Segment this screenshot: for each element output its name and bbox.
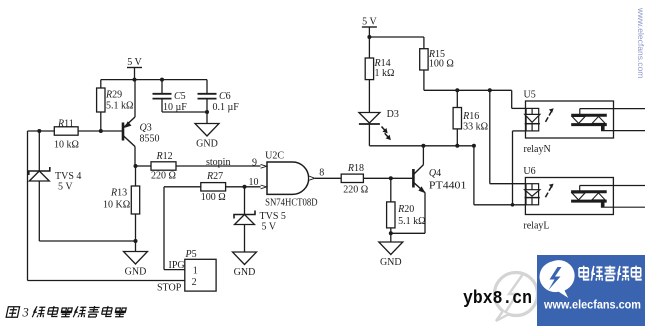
svg-text:GND: GND (196, 139, 218, 150)
wire STOP net (28, 280, 185, 282)
resistor R12 (151, 162, 176, 170)
wire to GND R13 (135, 241, 137, 252)
node U6 bottom branch (472, 144, 476, 148)
svg-text:GND: GND (380, 257, 402, 268)
svg-text:10 kΩ: 10 kΩ (54, 140, 79, 151)
svg-text:www.elecfans.com: www.elecfans.com (636, 7, 645, 78)
U6 internal LED (526, 184, 539, 205)
elecfans blue box Chinese brand text (579, 266, 589, 280)
wire U5 bottom pin (513, 130, 526, 132)
svg-text:5 V: 5 V (362, 17, 377, 28)
wire net B rail (369, 145, 474, 147)
wire C6 top lead (206, 80, 208, 94)
svg-text:R13: R13 (110, 188, 127, 199)
node R13 bottom junction (134, 239, 138, 243)
wire Q3 collector down (134, 147, 136, 167)
node 5V rail junction (133, 78, 137, 82)
svg-text:1 kΩ: 1 kΩ (375, 68, 395, 79)
svg-text:5 V: 5 V (262, 222, 277, 233)
svg-text:8: 8 (319, 168, 324, 179)
wire R29 bottom lead (100, 112, 102, 131)
watermark gray bubble logo (495, 273, 538, 322)
wire U6 top pin (490, 183, 526, 185)
resistor R16 (453, 108, 461, 129)
U5 triac (571, 114, 607, 117)
svg-text:P5: P5 (185, 249, 197, 260)
wire R11 to Q3 base (78, 130, 122, 132)
U6 flash arrow (545, 193, 548, 198)
node U5-U6 bottom junction (511, 203, 515, 207)
svg-text:5.1 kΩ: 5.1 kΩ (398, 216, 425, 227)
wire R15 bottom lead (423, 70, 425, 90)
wire R20 bottom lead (390, 228, 392, 233)
node R16 top junction (455, 88, 459, 92)
svg-text:www.elecfans.com: www.elecfans.com (543, 300, 641, 312)
wire TVS5 top lead (244, 187, 246, 215)
svg-text:5.1 kΩ: 5.1 kΩ (106, 101, 133, 112)
svg-text:U2C: U2C (265, 151, 284, 162)
svg-text:PT4401: PT4401 (429, 181, 467, 192)
svg-text:R27: R27 (206, 171, 223, 182)
wire C5 top lead (161, 80, 163, 94)
node R20 foot junction (389, 231, 393, 235)
resistor R18 (341, 174, 363, 182)
wire R18 to Q4 base (363, 177, 412, 179)
wire gate output (315, 177, 341, 179)
wire Q4 emitter down (424, 193, 426, 234)
wire R27 to pin10 (226, 186, 265, 188)
svg-text:R12: R12 (156, 151, 173, 162)
svg-text:C5: C5 (174, 91, 186, 102)
svg-text:9: 9 (252, 158, 257, 169)
wire C5 bottom lead (161, 99, 163, 112)
svg-text:2: 2 (192, 277, 197, 288)
wire R11 left (28, 130, 55, 132)
svg-text:R29: R29 (105, 90, 122, 101)
svg-text:U6: U6 (523, 166, 535, 177)
svg-text:33 kΩ: 33 kΩ (463, 122, 488, 133)
watermark elecfans blue box (537, 255, 645, 326)
caption figure 3 relay drive circuit (Chinese) (6, 307, 19, 318)
wire 5V right drop (368, 27, 370, 58)
svg-text:220 Ω: 220 Ω (151, 171, 176, 182)
node C6 bottom junction (205, 110, 209, 114)
transistor Q3 (PNP 8550) (122, 123, 125, 141)
svg-text:stopin: stopin (206, 157, 230, 168)
wire U5 top stub (511, 90, 513, 108)
wire TVS4 to GND rail (39, 240, 135, 242)
wire R12 left (136, 165, 152, 167)
wire C6 bottom lead (206, 99, 208, 112)
AND gate U2C SN74HCT08D (267, 162, 309, 194)
svg-text:100 Ω: 100 Ω (201, 192, 226, 203)
connector P5 (185, 259, 216, 291)
resistor R29 (97, 88, 105, 112)
wire U6 bottom pin (474, 204, 526, 206)
resistor R11 (54, 127, 78, 135)
svg-text:TVS 5: TVS 5 (260, 211, 286, 222)
node U6 branch junction (488, 88, 492, 92)
U5 internal LED (526, 108, 539, 130)
svg-text:TVS 4: TVS 4 (55, 171, 81, 182)
wire IPG vertical (163, 187, 165, 270)
resistor R15 (420, 49, 428, 70)
svg-text:U5: U5 (524, 90, 536, 101)
svg-text:5 V: 5 V (127, 57, 142, 68)
wire Q3 emitter to 5V (134, 80, 136, 117)
svg-text:Q4: Q4 (429, 168, 441, 179)
svg-text:GND: GND (234, 267, 256, 278)
elecfans logo bubble (537, 257, 580, 303)
wire Q4 emitter to R20 foot (391, 232, 425, 234)
wire 5V drop (134, 68, 136, 80)
resistor R14 (365, 58, 373, 80)
wire net A horizontal (424, 89, 512, 91)
wire R16 top lead (456, 90, 458, 107)
wire R15 top lead (423, 37, 425, 49)
wire left vertical (27, 131, 29, 281)
svg-text:IPG: IPG (169, 260, 185, 271)
node C5 top junction (160, 78, 164, 82)
svg-text:100 Ω: 100 Ω (429, 59, 454, 70)
wire 5V to R15 (369, 36, 424, 38)
svg-text:R20: R20 (397, 204, 414, 215)
svg-text:220 Ω: 220 Ω (343, 185, 368, 196)
wire R13 bottom lead (135, 214, 137, 241)
resistor R20 (387, 202, 395, 228)
wire stopin net (176, 165, 265, 167)
svg-text:3: 3 (22, 306, 29, 320)
wire top rail (101, 79, 207, 81)
wire C5-C6 bottom link (162, 111, 207, 113)
node R12 tee (134, 164, 138, 168)
svg-text:5 V: 5 V (58, 182, 73, 193)
wire D3 top lead (368, 80, 370, 113)
resistor R27 (201, 183, 226, 191)
wire TVS5 bottom lead (244, 225, 246, 253)
svg-text:R18: R18 (347, 163, 364, 174)
wire IPG net (164, 269, 185, 271)
svg-text:Q3: Q3 (140, 123, 152, 134)
U5 output pins (579, 109, 581, 116)
svg-text:STOP: STOP (157, 283, 182, 294)
U6 output pins (579, 186, 581, 192)
wire R29 top lead (100, 80, 102, 88)
wire U5 top pin (512, 107, 526, 109)
wire D3 bottom lead (368, 124, 370, 146)
node TVS5 branch (243, 185, 247, 189)
ground under TVS5 (233, 252, 257, 265)
node TVS4 branch (37, 129, 41, 133)
resistor R13 (131, 186, 139, 214)
svg-text:8550: 8550 (140, 134, 160, 145)
svg-text:relayN: relayN (524, 144, 551, 155)
svg-text:D3: D3 (387, 109, 399, 120)
wire net B vertical (473, 146, 475, 205)
wire TVS4 top lead (38, 131, 40, 171)
node Q4 collector junction (421, 144, 425, 148)
node R29-R11 junction (99, 129, 103, 133)
svg-text:ybx8.cn: ybx8.cn (463, 289, 532, 309)
optocoupler relay U6 (525, 178, 613, 215)
U6 triac (571, 190, 607, 193)
node R16 bottom junction (455, 144, 459, 148)
wire TVS4 bottom lead (38, 181, 40, 241)
svg-text:SN74HCT08D: SN74HCT08D (265, 197, 318, 208)
svg-text:GND: GND (125, 267, 147, 278)
D3 emission arrows (379, 125, 389, 135)
wire to GND C6 (206, 112, 208, 124)
svg-text:relayL: relayL (523, 221, 549, 232)
wire R27 left (164, 186, 201, 188)
optocoupler relay U5 (526, 101, 614, 138)
wire to GND R20 (390, 233, 392, 242)
svg-text:1: 1 (193, 266, 198, 277)
transistor Q4 (NPN PT4401) (412, 169, 415, 188)
node R20 branch (389, 176, 393, 180)
svg-text:10: 10 (249, 177, 259, 188)
svg-text:R16: R16 (462, 111, 479, 122)
svg-text:C6: C6 (219, 91, 231, 102)
svg-text:10 KΩ: 10 KΩ (103, 200, 130, 211)
node 5V right junction (367, 35, 371, 39)
wire Q4 collector (422, 146, 424, 165)
wire R20 top lead (390, 178, 392, 202)
U5 flash arrow (546, 117, 549, 122)
svg-text:0.1 µF: 0.1 µF (213, 102, 240, 113)
svg-text:R11: R11 (57, 119, 74, 130)
wire U6 top vertical (489, 90, 491, 183)
wire R13 top lead (135, 166, 137, 186)
wire U5 bottom vertical (512, 131, 514, 205)
wire R16 bottom lead (456, 129, 458, 146)
